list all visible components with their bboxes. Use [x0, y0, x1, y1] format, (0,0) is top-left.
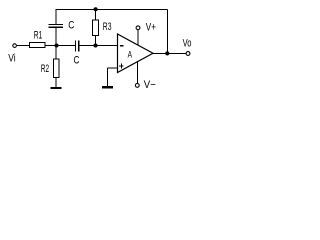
top feedback wire — [56, 9, 168, 11]
V- supply terminal — [135, 84, 139, 88]
wire node A down to R2 — [55, 46, 57, 60]
input terminal Vi — [13, 44, 17, 48]
op-amp minus sign — [120, 45, 124, 47]
wire R3 down to node B — [95, 36, 97, 46]
wire top feedback down to output node — [167, 10, 169, 54]
V+ supply terminal — [136, 26, 140, 30]
svg-text:C: C — [74, 54, 80, 66]
op-amp U1 triangle — [118, 34, 154, 73]
resistor R2 — [53, 59, 59, 78]
wire R1 to node A — [45, 45, 76, 47]
wire C2 to op-amp inverting input — [79, 45, 118, 47]
output node junction dot — [165, 51, 169, 55]
wire top wire down to R3 — [95, 10, 97, 21]
junction dot on top wire at R3 — [94, 7, 98, 11]
wire op-amp bottom edge to V- — [136, 61, 138, 83]
svg-text:V−: V− — [144, 79, 156, 91]
node A junction dot — [54, 43, 58, 47]
svg-text:Vo: Vo — [183, 38, 192, 50]
node B junction dot — [93, 43, 97, 47]
svg-text:A: A — [128, 49, 132, 59]
wire op-amp non-inverting input — [108, 68, 118, 87]
op-amp plus sign — [119, 64, 124, 69]
wire Vi to R1 — [17, 45, 30, 47]
wire V+ to op-amp top edge — [137, 30, 139, 45]
ground (below R2) — [51, 87, 62, 89]
svg-text:R3: R3 — [103, 21, 112, 33]
capacitor C1 (feedback cap, vertical) — [49, 25, 64, 28]
svg-text:R1: R1 — [34, 30, 43, 42]
capacitor C2 (series cap) — [76, 41, 79, 52]
wire R2 down to ground — [55, 78, 57, 88]
resistor R1 — [30, 43, 46, 48]
svg-text:R2: R2 — [41, 63, 49, 75]
wire node A up to capacitor C1 — [55, 27, 57, 46]
wire op-amp output — [153, 53, 186, 55]
svg-text:V+: V+ — [146, 21, 156, 33]
wire capacitor C1 up to top feedback wire — [55, 10, 57, 25]
output terminal Vo — [186, 52, 190, 56]
resistor R3 — [93, 20, 99, 36]
svg-text:Vi: Vi — [8, 52, 15, 64]
ground (below non-inverting input) — [102, 86, 113, 88]
svg-text:C: C — [68, 19, 74, 31]
